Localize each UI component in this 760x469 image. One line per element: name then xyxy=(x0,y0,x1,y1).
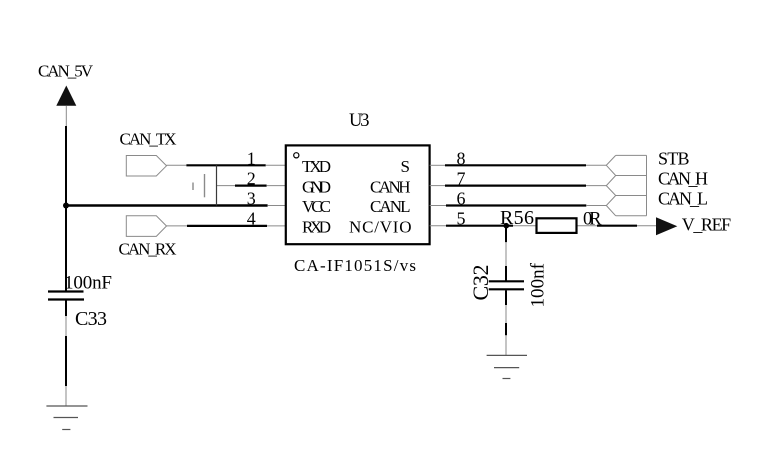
svg-text:U3: U3 xyxy=(349,111,370,131)
svg-text:CAN_TX: CAN_TX xyxy=(120,130,177,149)
svg-text:100nF: 100nF xyxy=(64,273,112,294)
svg-text:TXD: TXD xyxy=(302,157,331,176)
svg-text:C32: C32 xyxy=(468,265,493,301)
svg-text:CANL: CANL xyxy=(370,197,411,216)
svg-text:1: 1 xyxy=(247,148,256,168)
svg-text:CAN_RX: CAN_RX xyxy=(119,240,177,259)
svg-text:NC/VIO: NC/VIO xyxy=(349,217,412,236)
svg-text:3: 3 xyxy=(247,189,256,209)
svg-text:S: S xyxy=(401,157,410,176)
svg-text:CAN_L: CAN_L xyxy=(658,189,708,209)
svg-text:CAN_H: CAN_H xyxy=(658,169,708,189)
svg-text:C33: C33 xyxy=(75,308,107,330)
svg-text:CA-IF1051S/vs: CA-IF1051S/vs xyxy=(294,256,416,275)
svg-text:2: 2 xyxy=(247,169,256,189)
svg-text:0R: 0R xyxy=(583,209,602,229)
svg-text:CAN_5V: CAN_5V xyxy=(38,61,94,80)
svg-text:VCC: VCC xyxy=(302,197,331,216)
svg-text:V_REF: V_REF xyxy=(682,215,732,235)
svg-text:RXD: RXD xyxy=(302,217,331,236)
svg-text:100nf: 100nf xyxy=(528,262,549,307)
svg-text:4: 4 xyxy=(247,209,256,229)
svg-text:STB: STB xyxy=(658,148,690,168)
svg-text:CANH: CANH xyxy=(370,177,411,196)
svg-text:GND: GND xyxy=(302,177,331,196)
